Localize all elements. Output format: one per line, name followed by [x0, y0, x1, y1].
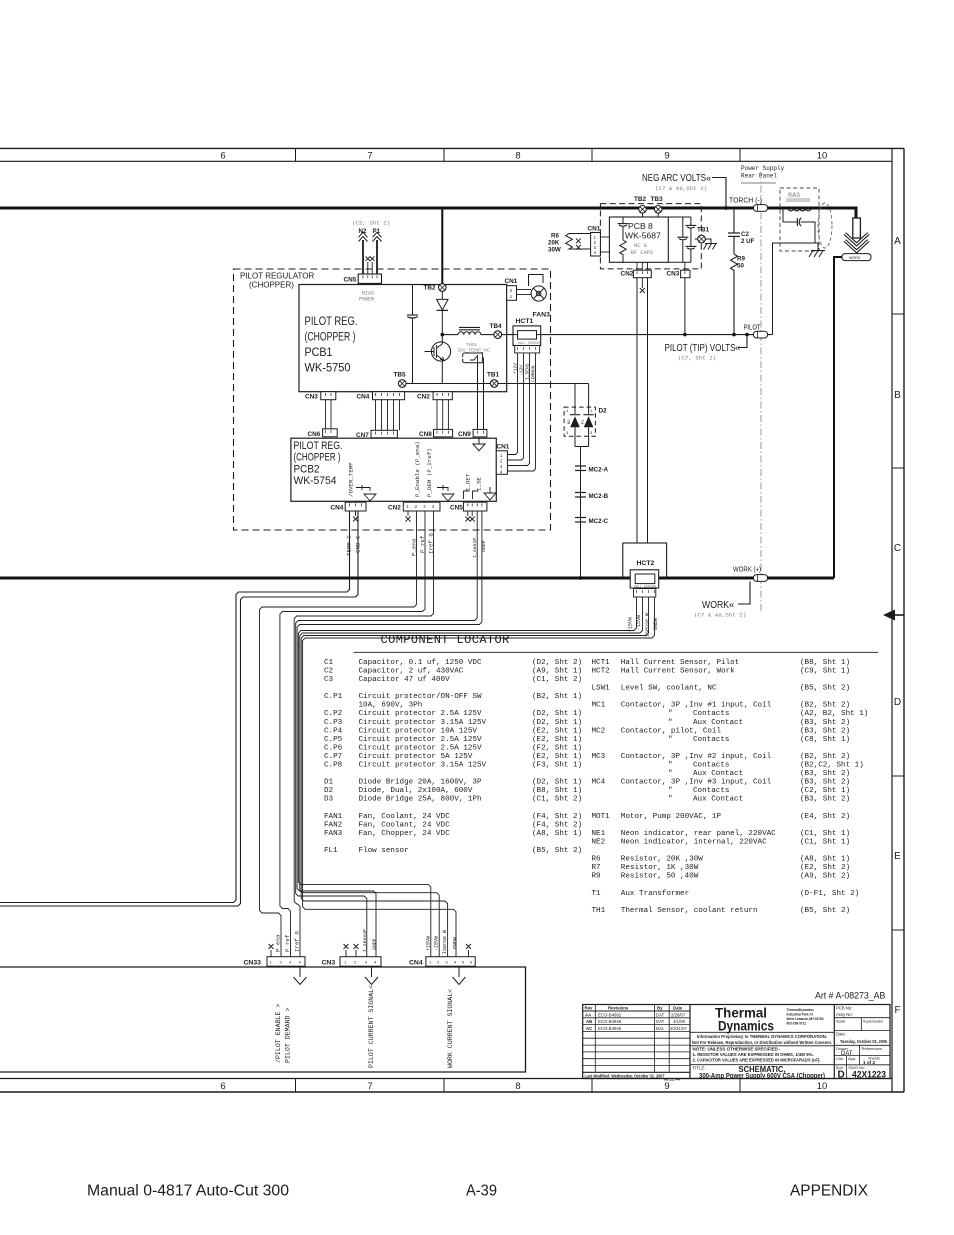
svg-text:R7: R7 — [592, 864, 601, 872]
svg-text:WORK CURRENT SIGNAL<: WORK CURRENT SIGNAL< — [447, 989, 454, 1068]
connector CN3 (PCB8) — [667, 262, 691, 277]
svg-text:GNDP: GNDP — [371, 938, 377, 950]
svg-text:WK-5754: WK-5754 — [294, 475, 337, 487]
pilot sense wires: PCB2 CN5 to CN3 — [296, 511, 482, 957]
wire: RAS bottom rail to pilot line — [773, 243, 819, 335]
svg-text:FAN2: FAN2 — [324, 821, 343, 829]
svg-text:D: D — [838, 1070, 845, 1081]
svg-text:(D-F1, Sht 2): (D-F1, Sht 2) — [800, 890, 859, 898]
svg-text:Not For Release, Reproduction,: Not For Release, Reproduction, or Distri… — [692, 1040, 832, 1045]
svg-text:TORCH (-): TORCH (-) — [729, 198, 762, 205]
chassis ground at TB1 — [704, 244, 718, 250]
svg-text:6: 6 — [220, 150, 225, 161]
revision table — [583, 1005, 690, 1073]
label: PILOT (TIP) VOLTS tap — [665, 333, 749, 362]
connector CN1 (PCB2 right) — [496, 444, 509, 475]
terminal TB1 (PCB8) — [695, 227, 711, 244]
svg-text:WORK: WORK — [849, 256, 861, 260]
svg-text:Circuit protector 3.15A 125V: Circuit protector 3.15A 125V — [359, 719, 487, 727]
svg-text:Tuesday, October 03, 2006: Tuesday, October 03, 2006 — [840, 1039, 887, 1044]
svg-text:Circuit protector 5A 125V: Circuit protector 5A 125V — [359, 753, 473, 761]
svg-text:(B5, Sht 2): (B5, Sht 2) — [800, 685, 850, 693]
svg-text:1. RESISTOR VALUES ARE EXPRESS: 1. RESISTOR VALUES ARE EXPRESSED IN OHMS… — [693, 1052, 814, 1057]
connector CN2 (PCB1 bottom) — [417, 392, 452, 401]
connector CN33 — [244, 944, 306, 967]
svg-text:P ena: P ena — [275, 934, 282, 952]
connector CN6 (PCB2 top) — [308, 429, 338, 438]
svg-text:LSW1: LSW1 — [592, 685, 611, 693]
svg-text:GNDW: GNDW — [453, 937, 459, 949]
svg-text:P_Enable (P_ena): P_Enable (P_ena) — [414, 441, 421, 497]
svg-text:MC3: MC3 — [592, 753, 606, 761]
wire: NEG ARC VOLTS tap to bus — [712, 178, 726, 209]
ground arrow under CN4 — [453, 966, 466, 984]
pilot line from TB4/HCT1 to pilot connector — [502, 334, 773, 336]
svg-text:10: 10 — [817, 1081, 828, 1092]
svg-text:": " — [668, 796, 673, 804]
svg-text:R6: R6 — [592, 856, 602, 864]
svg-text:(B3, Sht 2): (B3, Sht 2) — [800, 796, 850, 804]
svg-text:T1: T1 — [592, 890, 602, 898]
svg-text:DAL: DAL — [656, 1026, 665, 1031]
svg-text:(B3, Sht 2): (B3, Sht 2) — [800, 770, 850, 778]
svg-text:PILOT REG.: PILOT REG. — [294, 440, 343, 452]
svg-text:7: 7 — [367, 150, 372, 161]
svg-text:NOTE: UNLESS OTHERWISE SPECIFI: NOTE: UNLESS OTHERWISE SPECIFIED - — [693, 1047, 782, 1052]
svg-text:": " — [668, 762, 673, 770]
svg-text:-15Vw: -15Vw — [434, 936, 440, 951]
svg-text:WK-5750: WK-5750 — [305, 361, 351, 375]
svg-text:Information Proprietary to THE: Information Proprietary to THERMAL DYNAM… — [697, 1034, 827, 1039]
svg-text:Rear Panel: Rear Panel — [741, 173, 777, 180]
torch electrode symbol — [845, 218, 869, 251]
svg-text:DAT: DAT — [656, 1019, 665, 1024]
svg-text:CN3: CN3 — [667, 271, 680, 278]
svg-text:Resistor, 1K ,30W: Resistor, 1K ,30W — [621, 864, 699, 872]
svg-text:(E2, Sht 1): (E2, Sht 1) — [532, 727, 582, 735]
svg-text:(CHOPPER): (CHOPPER) — [249, 280, 294, 289]
svg-text:MC2-B: MC2-B — [589, 493, 609, 500]
svg-text:": " — [668, 736, 673, 744]
svg-text:Circuit protector 10A 125V: Circuit protector 10A 125V — [359, 727, 478, 735]
svg-text:CN2: CN2 — [388, 505, 401, 512]
wires TH01 to CN9 — [478, 363, 484, 430]
svg-text:CN6: CN6 — [308, 431, 321, 438]
svg-text:300-Amp Power Supply 600V CSA: 300-Amp Power Supply 600V CSA (Chopper) — [699, 1073, 825, 1080]
svg-text:TB3: TB3 — [651, 196, 664, 203]
HCT2 wire labels — [628, 613, 660, 637]
svg-text:(CHOPPER ): (CHOPPER ) — [305, 330, 356, 344]
terminal TB5 — [394, 372, 407, 388]
svg-text:(B2, Sht 2): (B2, Sht 2) — [800, 753, 850, 761]
connector CN7 (PCB2 top) — [356, 430, 397, 439]
svg-text:References: References — [862, 1046, 882, 1051]
svg-text:6: 6 — [220, 1081, 225, 1092]
svg-text:Contacts: Contacts — [693, 736, 729, 744]
svg-text:C.P8: C.P8 — [324, 762, 343, 770]
svg-text:P_DEM (P_Iref): P_DEM (P_Iref) — [426, 448, 433, 497]
dashed CT ellipse over work lead — [818, 203, 832, 248]
grid column numbers bottom — [220, 1081, 827, 1092]
svg-text:PILOT CURRENT SIGNAL<: PILOT CURRENT SIGNAL< — [368, 985, 375, 1068]
svg-text:10: 10 — [817, 150, 828, 161]
svg-text:": " — [668, 710, 673, 718]
svg-text:MC4: MC4 — [592, 779, 606, 787]
svg-text:(C1, Sht 1): (C1, Sht 1) — [800, 839, 850, 847]
svg-text:(B3, Sht 2): (B3, Sht 2) — [800, 727, 850, 735]
svg-text:Contactor, 3P ,Inv #2 input, C: Contactor, 3P ,Inv #2 input, Coil — [621, 753, 772, 761]
svg-text:C: C — [894, 543, 901, 554]
svg-text:Hall Current Sensor, Work: Hall Current Sensor, Work — [621, 667, 735, 675]
connector CN5 (PCB1 top) — [344, 274, 382, 284]
svg-text:MC2: MC2 — [592, 727, 606, 735]
IGBT Q (PCB1) — [425, 342, 451, 384]
svg-text:MC1: MC1 — [592, 702, 606, 710]
svg-text:Manual 0-4817 Auto-Cut 300: Manual 0-4817 Auto-Cut 300 — [87, 1183, 289, 1200]
svg-text:Chk:: Chk: — [836, 1056, 844, 1061]
contactor contact MC2-B — [575, 493, 609, 501]
svg-text:Supersedes: Supersedes — [863, 1019, 883, 1023]
svg-text:08:11:44: 08:11:44 — [664, 1076, 681, 1081]
ground arrow under CN33 — [294, 966, 307, 984]
svg-text:Contacts: Contacts — [693, 710, 729, 718]
svg-text:Isense W: Isense W — [442, 930, 448, 954]
svg-text:Fan, Coolant, 24 VDC: Fan, Coolant, 24 VDC — [359, 813, 451, 821]
connector CN2 (PCB8) — [621, 262, 652, 293]
svg-text:Iref G: Iref G — [294, 931, 301, 952]
resistor R9 — [731, 254, 746, 335]
svg-text:C.P7: C.P7 — [324, 753, 342, 761]
svg-text:Diode, Dual, 2x100A, 600V: Diode, Dual, 2x100A, 600V — [359, 787, 473, 795]
svg-text:HCT1: HCT1 — [516, 318, 534, 325]
svg-text:TB1: TB1 — [487, 372, 500, 379]
terminal TB2 (PCB8) — [634, 196, 647, 217]
svg-text:(A2, B2, Sht 1): (A2, B2, Sht 1) — [800, 710, 868, 718]
svg-text:C.P1: C.P1 — [324, 693, 343, 701]
capacitor C2 — [728, 208, 755, 254]
svg-text:App:: App: — [848, 1056, 856, 1061]
svg-text:PCB 8: PCB 8 — [628, 221, 653, 231]
chassis ground at RAS — [809, 251, 825, 258]
svg-text:(E2, Sht 1): (E2, Sht 1) — [532, 753, 582, 761]
svg-text:Neon indicator, internal, 220V: Neon indicator, internal, 220VAC — [621, 839, 767, 847]
svg-text:C.P5: C.P5 — [324, 736, 343, 744]
diode (PCB1) — [437, 291, 448, 342]
svg-text:TB2: TB2 — [634, 196, 647, 203]
HCT2 loop box — [623, 543, 667, 578]
svg-text:I_DET: I_DET — [465, 473, 472, 491]
svg-text:Circuit protector 3.15A 125V: Circuit protector 3.15A 125V — [359, 762, 487, 770]
internal cap+resistor column (PCB8 left) — [618, 217, 629, 262]
svg-text:7: 7 — [367, 1081, 372, 1092]
svg-text:(E4, Sht 2): (E4, Sht 2) — [800, 813, 850, 821]
svg-text:DAT: DAT — [656, 1012, 665, 1017]
wire: bus down to TB2 — [441, 208, 443, 284]
label: NEG ARC VOLTS with off-sheet arrow — [642, 173, 711, 192]
svg-text:A: A — [894, 236, 901, 247]
svg-text:«: « — [735, 343, 740, 354]
svg-text:": " — [668, 719, 673, 727]
svg-text:NEG ARC VOLTS: NEG ARC VOLTS — [642, 173, 706, 184]
connector CN3 (IO) — [322, 944, 382, 967]
connector: WORK clamp — [842, 254, 871, 261]
svg-text:(F2, Sht 1): (F2, Sht 1) — [532, 744, 582, 752]
svg-text:PILOT REG.: PILOT REG. — [305, 314, 358, 328]
off-sheet arrows N2 P1 — [352, 220, 390, 275]
svg-text:(C2, Sht 1): (C2, Sht 1) — [800, 787, 850, 795]
svg-text:CN2: CN2 — [621, 271, 634, 278]
svg-text:(C7 & A9,Sht 2): (C7 & A9,Sht 2) — [694, 612, 746, 619]
svg-text:(C7 & A9,Sht 2): (C7 & A9,Sht 2) — [655, 185, 707, 192]
svg-text:2/28/07: 2/28/07 — [671, 1012, 686, 1017]
svg-text:I_SE: I_SE — [476, 477, 483, 491]
svg-text:C.P4: C.P4 — [324, 727, 343, 735]
CN4 wire labels — [425, 930, 458, 954]
svg-text:4/1/08: 4/1/08 — [673, 1019, 686, 1024]
svg-text:Circuit protector 2.5A 125V: Circuit protector 2.5A 125V — [359, 744, 482, 752]
svg-text:By: By — [657, 1005, 663, 1010]
svg-text:Motor, Pump 200VAC, 1P: Motor, Pump 200VAC, 1P — [621, 813, 722, 821]
terminal TB3 (PCB8) — [651, 196, 664, 217]
pilot control wires: PCB2 CN4 to IO board — [0, 511, 358, 906]
grid row letters right — [894, 236, 901, 1016]
component locator table — [324, 633, 878, 915]
terminal TB2 (PCB1) — [424, 284, 447, 292]
label+connector: TORCH (-) — [729, 198, 768, 212]
svg-text:C2: C2 — [324, 667, 334, 675]
svg-text:Aux Contact: Aux Contact — [693, 796, 743, 804]
CN33 wire labels — [275, 931, 301, 952]
PCB2 internal signal names — [348, 441, 483, 497]
svg-text:Aux Transformer: Aux Transformer — [621, 890, 689, 898]
svg-text:B: B — [894, 390, 901, 401]
wire bundle CN4-CN7 — [376, 400, 400, 431]
svg-text:(B8, Sht 1): (B8, Sht 1) — [532, 787, 582, 795]
svg-text:RF CAPS: RF CAPS — [631, 250, 654, 256]
wire: TB1 rail to D2 legs — [575, 384, 589, 415]
svg-text:/PILOT ENABLE >: /PILOT ENABLE > — [275, 1004, 282, 1063]
IO board signal names — [275, 985, 454, 1068]
label: Power Supply Rear Panel — [741, 165, 785, 180]
svg-text:+15Vw: +15Vw — [628, 617, 634, 632]
label: WORK off-sheet — [694, 581, 750, 618]
Thermal Dynamics logo — [715, 1006, 774, 1034]
svg-text:Date:: Date: — [836, 1032, 846, 1037]
svg-text:8: 8 — [515, 150, 520, 161]
svg-text:(F3, Sht 1): (F3, Sht 1) — [532, 762, 582, 770]
HCT1 wire labels — [512, 363, 536, 382]
fan FAN3 — [529, 275, 547, 302]
svg-text:MC2-A: MC2-A — [589, 467, 609, 474]
svg-text:Circuit protector 2.5A 125V: Circuit protector 2.5A 125V — [359, 710, 482, 718]
svg-text:CN2: CN2 — [417, 394, 430, 401]
svg-text:P1: P1 — [373, 228, 381, 235]
sheet border: bottom grid strip — [0, 1079, 904, 1093]
svg-text:ECO-B4682: ECO-B4682 — [598, 1012, 622, 1017]
svg-text:(B2, Sht 2): (B2, Sht 2) — [800, 702, 850, 710]
svg-text:(F4, Sht 2): (F4, Sht 2) — [532, 821, 582, 829]
svg-text:9: 9 — [664, 150, 669, 161]
svg-text:Industrial Park #2: Industrial Park #2 — [787, 1013, 814, 1017]
svg-text:(A8, Sht 1): (A8, Sht 1) — [800, 856, 850, 864]
PCB8 snubber dashed box — [600, 204, 701, 269]
svg-text:«: « — [706, 173, 711, 184]
wire labels under PCB2 — [346, 533, 487, 558]
svg-text:Circuit protector 2.5A 125V: Circuit protector 2.5A 125V — [359, 736, 482, 744]
contactor contact MC2-A — [575, 466, 609, 474]
sheet border: top grid strip — [0, 148, 904, 161]
svg-text:Fan, Chopper, 24 VDC: Fan, Chopper, 24 VDC — [359, 830, 451, 838]
svg-text:PCB2: PCB2 — [294, 463, 320, 475]
svg-text:RC &: RC & — [634, 243, 648, 249]
svg-text:Aux Contact: Aux Contact — [693, 719, 743, 727]
svg-text:PILOT (TIP) VOLTS: PILOT (TIP) VOLTS — [665, 343, 736, 354]
svg-text:TB1: TB1 — [697, 227, 710, 234]
svg-text:Capacitor, 2 uf, 430VAC: Capacitor, 2 uf, 430VAC — [359, 667, 464, 675]
connector CN9 (PCB2 top) — [458, 429, 487, 438]
svg-text:30W: 30W — [548, 247, 561, 254]
svg-text:C.P2: C.P2 — [324, 710, 343, 718]
svg-text:NE1: NE1 — [592, 830, 606, 838]
svg-text:HCT2: HCT2 — [637, 560, 655, 567]
svg-text:CN4: CN4 — [357, 394, 370, 401]
svg-text:WK-5687: WK-5687 — [625, 231, 661, 241]
svg-text:MC2-C: MC2-C — [589, 518, 609, 525]
svg-text:D2: D2 — [599, 408, 608, 415]
CN3 wire labels — [362, 929, 378, 952]
svg-text:2 UF: 2 UF — [741, 238, 755, 245]
svg-text:(C2, Sht 2): (C2, Sht 2) — [352, 220, 390, 227]
connector CN3 (PCB1 bottom) — [305, 392, 336, 401]
svg-text:Contactor, pilot, Coil: Contactor, pilot, Coil — [621, 727, 722, 735]
svg-text:CN1: CN1 — [588, 226, 601, 233]
svg-text:TH1: TH1 — [592, 907, 606, 915]
PCB1 board box — [299, 285, 507, 392]
ground arrow under CN3 — [365, 966, 378, 984]
svg-text:CN1: CN1 — [505, 278, 518, 285]
hall sensor HCT1 — [513, 318, 541, 353]
svg-text:FAN1: FAN1 — [324, 813, 343, 821]
RAS filter dashed box — [780, 188, 819, 251]
svg-text:CN4: CN4 — [331, 505, 344, 512]
connector CN8 (PCB2 top) — [419, 429, 453, 438]
svg-text:Assy No:: Assy No: — [836, 1012, 853, 1017]
svg-text:PILOT REGULATOR: PILOT REGULATOR — [240, 271, 314, 280]
svg-text:I_sensoP: I_sensoP — [362, 929, 368, 952]
svg-text:-15Vw: -15Vw — [636, 615, 642, 630]
resistor R6 — [548, 233, 591, 254]
svg-text:D1: D1 — [324, 779, 334, 787]
open-collector + ground symbols inside PCB2 — [356, 485, 496, 501]
svg-text:P ref: P ref — [284, 934, 291, 952]
svg-text:CN3: CN3 — [322, 960, 336, 967]
svg-text:Neon indicator, rear panel, 22: Neon indicator, rear panel, 220VAC — [621, 830, 776, 838]
svg-text:APPENDIX: APPENDIX — [790, 1183, 869, 1200]
svg-text:PCB No:: PCB No: — [836, 1006, 852, 1011]
wire: WORK(+) bus — [0, 577, 834, 580]
svg-text:Art # A-08273_AB: Art # A-08273_AB — [815, 991, 886, 1001]
svg-text:ECO-B4946: ECO-B4946 — [598, 1026, 622, 1031]
svg-text:CN1: CN1 — [497, 444, 510, 451]
svg-text:CN5: CN5 — [450, 505, 463, 512]
work sense ribbon: HCT2 to CN4 of IO board — [298, 597, 654, 957]
svg-text:C.P3: C.P3 — [324, 719, 343, 727]
svg-text:D3: D3 — [324, 796, 334, 804]
title block — [583, 1005, 890, 1079]
svg-text:C3: C3 — [324, 676, 334, 684]
svg-text:(B2,C2, Sht 1): (B2,C2, Sht 1) — [800, 762, 864, 770]
contactor contact MC2-C — [575, 518, 609, 526]
svg-text:Flow sensor: Flow sensor — [359, 847, 409, 855]
svg-text:ThermalDynamics: ThermalDynamics — [787, 1008, 815, 1012]
svg-text:MOT1: MOT1 — [592, 813, 611, 821]
label+connector: PILOT — [744, 325, 768, 339]
svg-text:D2: D2 — [324, 787, 334, 795]
svg-text:(A9, Sht 2): (A9, Sht 2) — [800, 873, 850, 881]
connector CN4 (IO) — [409, 944, 475, 967]
svg-text:A-39: A-39 — [466, 1183, 497, 1200]
svg-text:TB4: TB4 — [490, 323, 503, 330]
svg-text:(B3, Sht 2): (B3, Sht 2) — [800, 719, 850, 727]
svg-text:Contacts: Contacts — [693, 787, 729, 795]
label+connector: WORK (+) — [733, 567, 768, 582]
wire CN3(PCB8) down to pilot line — [684, 278, 686, 335]
PILOT REGULATOR (CHOPPER) dashed enclosure — [234, 269, 551, 530]
svg-text:(C9, Sht 1): (C9, Sht 1) — [800, 667, 850, 675]
svg-text:Resistor, 50 ,40W: Resistor, 50 ,40W — [621, 873, 699, 881]
sheet centering arrow, right edge — [883, 610, 904, 621]
capacitor (PCB1 bias) — [407, 285, 418, 384]
svg-text:West Lebanon,NH 03784: West Lebanon,NH 03784 — [787, 1017, 824, 1021]
svg-text:33V_TEMP_NC: 33V_TEMP_NC — [458, 348, 491, 353]
svg-text:Hall Current Sensor, Pilot: Hall Current Sensor, Pilot — [621, 659, 739, 667]
sheet border: right edge rails — [892, 148, 904, 1092]
svg-text:CN5: CN5 — [344, 277, 357, 284]
svg-text:POWER: POWER — [359, 297, 374, 303]
terminal TB4 — [490, 323, 503, 338]
svg-text:HCT2: HCT2 — [592, 667, 611, 675]
svg-text:(F4, Sht 2): (F4, Sht 2) — [532, 813, 582, 821]
svg-text:AC: AC — [586, 1026, 592, 1031]
svg-text:": " — [668, 770, 673, 778]
terminal TB1 (PCB1) — [487, 372, 500, 388]
svg-text:(D2, Sht 2): (D2, Sht 2) — [532, 659, 582, 667]
PCB1 bottom rail TB5..D2 — [406, 383, 589, 385]
svg-text:(A9, Sht 1): (A9, Sht 1) — [532, 667, 582, 675]
svg-text:42X1223: 42X1223 — [852, 1070, 886, 1081]
svg-text:N2: N2 — [568, 419, 572, 424]
svg-text:TITLE:: TITLE: — [693, 1066, 706, 1071]
svg-text:Date: Date — [673, 1005, 683, 1010]
svg-text:Contacts: Contacts — [693, 762, 729, 770]
svg-text:(CHOPPER ): (CHOPPER ) — [294, 452, 341, 464]
svg-text:(C8, Sht 1): (C8, Sht 1) — [800, 736, 850, 744]
svg-text:9: 9 — [664, 1081, 669, 1092]
svg-text:C1: C1 — [324, 659, 334, 667]
svg-text:Fan, Coolant, 24 VDC: Fan, Coolant, 24 VDC — [359, 821, 451, 829]
svg-text:WORK (+): WORK (+) — [733, 567, 761, 574]
svg-text:AA: AA — [585, 1012, 591, 1017]
svg-text:603-298-5711: 603-298-5711 — [787, 1022, 807, 1026]
svg-text:Last Modified: Wednesday, Oct: Last Modified: Wednesday, October 31, 20… — [585, 1073, 666, 1078]
PCB2 board box — [291, 438, 496, 501]
svg-text:FL1: FL1 — [324, 847, 338, 855]
svg-text:Aux Contact: Aux Contact — [693, 770, 743, 778]
svg-text:PILOT: PILOT — [744, 325, 762, 332]
thermostat TH01 — [458, 342, 491, 363]
svg-text:Contactor, 3P ,Inv #1 input, C: Contactor, 3P ,Inv #1 input, Coil — [621, 702, 772, 710]
svg-text:PILOT DEMAND >: PILOT DEMAND > — [285, 1008, 292, 1063]
